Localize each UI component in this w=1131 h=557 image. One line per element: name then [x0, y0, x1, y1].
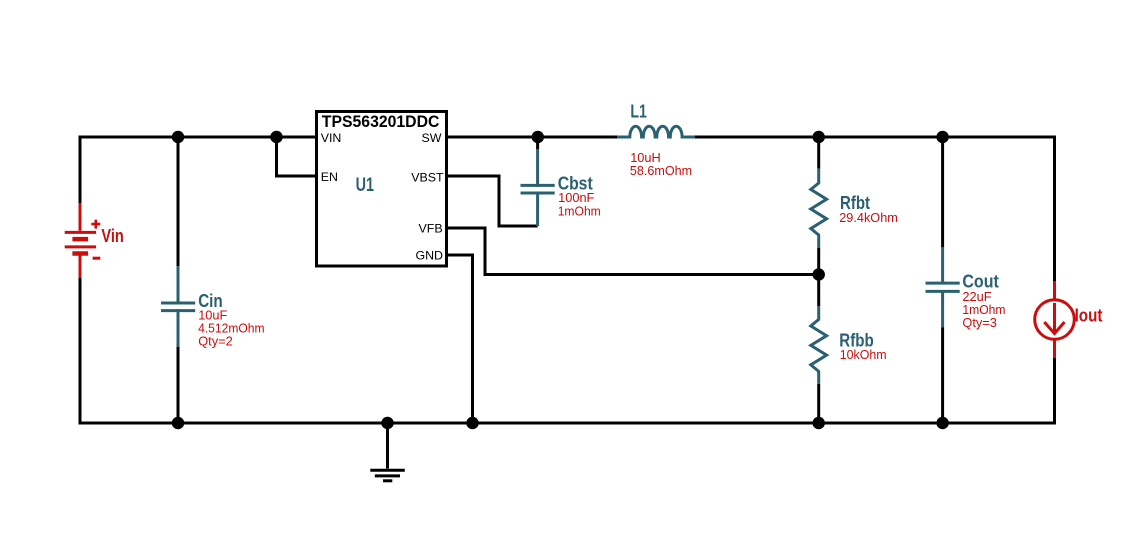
- svg-text:1mOhm: 1mOhm: [558, 203, 601, 218]
- svg-text:EN: EN: [321, 170, 338, 184]
- svg-text:58.6mOhm: 58.6mOhm: [630, 163, 692, 178]
- svg-text:VBST: VBST: [411, 170, 444, 184]
- svg-text:TPS563201DDC: TPS563201DDC: [322, 112, 440, 131]
- svg-text:GND: GND: [415, 248, 443, 262]
- svg-text:10kOhm: 10kOhm: [840, 347, 887, 362]
- svg-text:Qty=2: Qty=2: [198, 334, 233, 349]
- svg-text:SW: SW: [422, 131, 442, 145]
- svg-text:Iout: Iout: [1075, 306, 1103, 326]
- svg-text:29.4kOhm: 29.4kOhm: [839, 210, 898, 225]
- svg-text:L1: L1: [630, 102, 647, 122]
- svg-text:Qty=3: Qty=3: [962, 315, 997, 330]
- svg-text:U1: U1: [356, 175, 375, 196]
- svg-text:VIN: VIN: [321, 131, 342, 145]
- svg-text:VFB: VFB: [418, 222, 442, 236]
- svg-text:Vin: Vin: [101, 226, 123, 246]
